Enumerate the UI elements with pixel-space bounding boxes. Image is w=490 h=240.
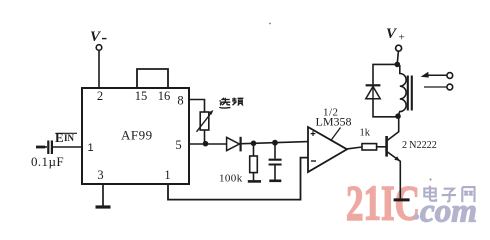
svg-text:V: V	[386, 26, 398, 42]
wire diode to op-amp non-inverting input	[242, 142, 308, 144]
speck artifact	[430, 179, 432, 181]
svg-text:E: E	[55, 130, 64, 145]
transistor Q1 emitter	[388, 152, 401, 198]
wire pin 8 to potentiometer	[189, 100, 205, 113]
svg-text:2 N2222: 2 N2222	[402, 140, 437, 151]
svg-text:2: 2	[97, 89, 103, 103]
potentiometer arrow	[197, 113, 212, 132]
ground pin 3	[96, 205, 111, 208]
ground C2	[269, 180, 281, 183]
svg-text:1k: 1k	[360, 128, 371, 139]
node resistor junction	[251, 141, 257, 147]
label xuan (select)	[219, 98, 230, 108]
wire op-amp output to R2	[347, 147, 362, 149]
pointer line to label	[331, 128, 341, 142]
node relay bottom	[395, 113, 401, 119]
capacitor C2	[269, 160, 282, 165]
transistor Q1 collector	[388, 119, 399, 141]
diode D1	[227, 137, 240, 150]
svg-text:IN: IN	[64, 133, 75, 143]
input terminal stub	[36, 146, 45, 149]
svg-text:AF99: AF99	[121, 128, 153, 143]
wire potentiometer to node	[204, 130, 206, 144]
op-amp U2 LM358	[308, 127, 347, 172]
svg-text:V: V	[90, 29, 102, 45]
wire capacitor to pin 1	[53, 146, 82, 148]
capacitor C1 input	[48, 141, 52, 155]
relay contact lower line	[424, 86, 447, 88]
node capacitor junction	[272, 140, 278, 146]
svg-text:5: 5	[175, 138, 181, 152]
relay contact armature arrow	[424, 74, 447, 76]
watermark char 子	[442, 189, 456, 202]
wire node to resistor	[253, 143, 255, 156]
op-amp minus sign	[311, 160, 316, 162]
wire R2 to base	[377, 146, 386, 148]
label EIN	[55, 130, 77, 145]
svg-text:21IC: 21IC	[346, 175, 420, 231]
ground emitter	[394, 198, 410, 201]
wire resistor to ground	[253, 173, 255, 181]
wire capacitor to ground	[274, 166, 276, 180]
speck artifact top	[269, 23, 271, 25]
relay coil K1	[398, 65, 406, 116]
IC U1 AF99 body	[82, 88, 189, 184]
svg-text:+: +	[399, 32, 405, 44]
jumper box between pins 15 and 16	[137, 69, 168, 88]
resistor R1 100k	[250, 156, 258, 173]
svg-text:0.1µF: 0.1µF	[31, 154, 64, 169]
label pin (frequency)	[232, 98, 243, 106]
wire V- to pin 2	[98, 50, 100, 88]
relay core bars	[408, 76, 412, 111]
node pot/pin5 junction	[203, 141, 209, 147]
diode D2 (flyback)	[366, 84, 381, 86]
wire stub to capacitor	[45, 146, 47, 148]
svg-text:LM358: LM358	[316, 115, 352, 129]
terminal V-	[96, 45, 102, 51]
watermark char 电	[424, 186, 436, 201]
relay contact terminal bottom	[447, 84, 453, 90]
node relay top	[395, 62, 401, 68]
svg-text:3: 3	[97, 168, 103, 182]
wire pin 5 to diode	[189, 143, 227, 145]
svg-text:15: 15	[135, 89, 148, 103]
resistor R2 1k	[362, 144, 377, 150]
op-amp plus sign	[311, 131, 316, 136]
wire node to diode D2	[373, 64, 397, 84]
svg-text:16: 16	[158, 89, 171, 103]
watermark char 网	[462, 187, 474, 202]
potentiometer RP (select frequency)	[200, 112, 209, 130]
wire pin 1 bottom rail to op-amp inverting input	[168, 158, 308, 200]
svg-text:8: 8	[177, 94, 183, 108]
svg-text:1: 1	[164, 168, 170, 182]
watermark .com	[413, 214, 419, 220]
wire pin 3 to ground	[102, 185, 104, 207]
relay contact terminal top	[447, 73, 453, 79]
wire V+ to node	[397, 51, 398, 62]
wire diode to relay bottom node	[373, 99, 397, 117]
terminal V+	[396, 45, 402, 51]
ground R1	[248, 180, 261, 183]
svg-text:100k: 100k	[219, 173, 243, 185]
transistor Q1 base bar	[385, 136, 388, 157]
wire node to capacitor	[274, 143, 276, 159]
svg-text:1: 1	[87, 142, 93, 154]
